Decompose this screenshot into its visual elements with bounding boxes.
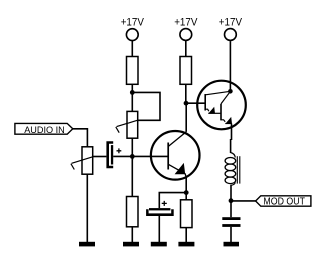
wire R3 to ground xyxy=(131,227,133,243)
node B junction dot xyxy=(130,154,135,159)
resistor R1 xyxy=(127,57,139,85)
wire Q2 collector to P3 xyxy=(229,41,231,91)
wire AUDIO IN to R5 top xyxy=(73,129,88,147)
wire P2 to R2 xyxy=(185,40,187,56)
node C junction dot xyxy=(184,101,189,106)
wire node E to MOD OUT xyxy=(231,200,256,202)
trimmer R5 xyxy=(71,147,93,174)
inductor L1 xyxy=(225,153,240,186)
wire feedback loop node A to R6 wiper xyxy=(132,92,160,120)
wire node D to R4 xyxy=(185,193,187,200)
transistor Q2 darlington xyxy=(197,81,246,130)
svg-text:+17V: +17V xyxy=(121,17,145,29)
ground G4 xyxy=(178,242,194,247)
node D junction dot xyxy=(184,190,189,195)
wire node C to Q2 base xyxy=(186,102,205,104)
svg-text:+17V: +17V xyxy=(174,17,198,29)
wire Q1 emitter to node D xyxy=(185,178,187,193)
wire C3 to ground xyxy=(230,227,232,243)
wire Q1 collector to node C xyxy=(185,103,187,132)
wire C2 to ground xyxy=(158,216,160,243)
wire node B to R3 xyxy=(131,156,133,196)
capacitor C2 electrolytic xyxy=(146,201,174,216)
ground G1 xyxy=(79,242,95,247)
input tag AUDIO IN xyxy=(15,123,73,135)
resistor R3 xyxy=(127,197,139,227)
power +17V P3 xyxy=(219,17,243,41)
wire L1 to node E xyxy=(230,185,232,217)
wire R5 to ground xyxy=(86,174,88,243)
ground G5 xyxy=(224,242,240,247)
ground G2 xyxy=(123,242,139,247)
wire C1 to node B and Q1 base xyxy=(113,155,167,157)
wire R2 to node C xyxy=(185,84,187,103)
resistor R2 xyxy=(180,57,192,85)
svg-text:AUDIO IN: AUDIO IN xyxy=(24,125,65,136)
trimmer R6 xyxy=(116,111,138,138)
ground G3 xyxy=(151,242,167,247)
power +17V P1 xyxy=(121,17,145,41)
wire R6 to node B xyxy=(131,138,133,160)
output tag MOD OUT xyxy=(256,196,311,208)
wire Q2 emitter to L1 xyxy=(231,124,233,140)
svg-text:+17V: +17V xyxy=(219,17,243,29)
transistor Q1 xyxy=(151,131,200,180)
power +17V P2 xyxy=(174,17,198,41)
svg-text:MOD OUT: MOD OUT xyxy=(263,197,305,208)
wire node D to C2 xyxy=(159,193,186,209)
wire P1 to R1 xyxy=(131,41,133,57)
node A junction dot xyxy=(130,90,135,95)
resistor R4 xyxy=(181,200,193,228)
wire R4 to ground xyxy=(185,228,187,243)
capacitor C3 xyxy=(222,217,240,227)
wire R1 to node A xyxy=(131,84,133,111)
capacitor C1 electrolytic xyxy=(106,141,121,168)
node E junction dot xyxy=(229,198,234,203)
wire R5 wiper to C1 xyxy=(93,156,107,158)
